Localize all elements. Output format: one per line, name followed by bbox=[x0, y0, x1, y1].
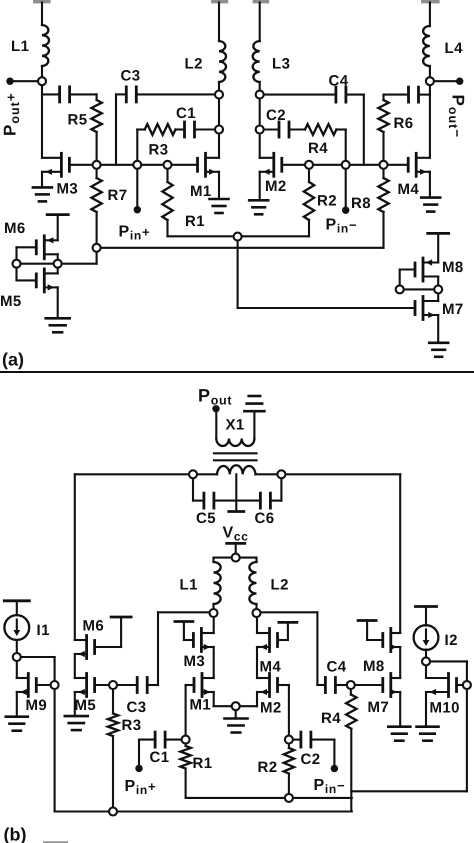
svg-text:R4: R4 bbox=[321, 710, 341, 727]
svg-text:(a): (a) bbox=[2, 350, 24, 370]
svg-text:C2: C2 bbox=[301, 751, 321, 768]
svg-text:R2: R2 bbox=[258, 759, 278, 776]
svg-text:C3: C3 bbox=[121, 68, 141, 85]
svg-text:Pin+: Pin+ bbox=[119, 224, 151, 243]
svg-text:C3: C3 bbox=[127, 699, 147, 716]
svg-text:Pin−: Pin− bbox=[314, 777, 346, 796]
svg-text:R1: R1 bbox=[185, 213, 205, 230]
svg-text:M3: M3 bbox=[57, 181, 79, 198]
svg-text:C6: C6 bbox=[255, 510, 275, 527]
svg-text:R3: R3 bbox=[122, 717, 142, 734]
svg-text:Pin−: Pin− bbox=[326, 217, 358, 236]
svg-text:I1: I1 bbox=[37, 622, 50, 639]
svg-text:Vcc: Vcc bbox=[223, 525, 249, 544]
svg-text:C4: C4 bbox=[329, 73, 349, 90]
svg-text:M9: M9 bbox=[26, 697, 48, 714]
svg-text:M7: M7 bbox=[442, 301, 464, 318]
svg-text:C5: C5 bbox=[196, 510, 216, 527]
svg-text:R2: R2 bbox=[317, 193, 337, 210]
svg-text:I2: I2 bbox=[445, 632, 458, 649]
svg-text:M5: M5 bbox=[75, 697, 97, 714]
svg-text:M1: M1 bbox=[190, 183, 212, 200]
svg-text:R7: R7 bbox=[108, 187, 128, 204]
svg-text:C1: C1 bbox=[150, 749, 170, 766]
svg-text:C4: C4 bbox=[327, 659, 347, 676]
svg-text:M6: M6 bbox=[83, 618, 105, 635]
svg-text:(b): (b) bbox=[4, 825, 27, 843]
svg-text:Pout+: Pout+ bbox=[1, 92, 22, 136]
svg-text:L3: L3 bbox=[272, 56, 290, 73]
svg-text:M8: M8 bbox=[442, 259, 464, 276]
svg-text:M4: M4 bbox=[260, 659, 282, 676]
svg-text:L1: L1 bbox=[11, 38, 29, 55]
svg-text:M7: M7 bbox=[368, 699, 390, 716]
svg-text:C1: C1 bbox=[176, 105, 196, 122]
svg-text:L4: L4 bbox=[445, 40, 464, 57]
svg-text:M6: M6 bbox=[4, 220, 26, 237]
svg-text:M4: M4 bbox=[398, 181, 420, 198]
svg-text:M1: M1 bbox=[190, 697, 212, 714]
svg-text:M8: M8 bbox=[363, 658, 385, 675]
svg-text:L1: L1 bbox=[180, 577, 198, 594]
svg-text:L2: L2 bbox=[271, 577, 289, 594]
svg-text:R1: R1 bbox=[193, 755, 213, 772]
svg-text:M5: M5 bbox=[0, 293, 22, 310]
svg-text:X1: X1 bbox=[226, 417, 245, 434]
svg-text:L2: L2 bbox=[185, 56, 203, 73]
svg-text:R4: R4 bbox=[308, 140, 328, 157]
svg-text:M3: M3 bbox=[184, 653, 206, 670]
svg-text:Pout: Pout bbox=[198, 386, 232, 408]
svg-text:M10: M10 bbox=[430, 700, 460, 717]
svg-text:M2: M2 bbox=[265, 178, 287, 195]
svg-text:M2: M2 bbox=[260, 700, 282, 717]
svg-text:R5: R5 bbox=[68, 112, 88, 129]
svg-text:Pout−: Pout− bbox=[446, 95, 467, 139]
svg-text:R3: R3 bbox=[149, 142, 169, 159]
svg-text:Pin+: Pin+ bbox=[125, 778, 157, 797]
svg-text:R8: R8 bbox=[351, 195, 371, 212]
svg-text:R6: R6 bbox=[394, 115, 414, 132]
svg-text:C2: C2 bbox=[266, 107, 286, 124]
